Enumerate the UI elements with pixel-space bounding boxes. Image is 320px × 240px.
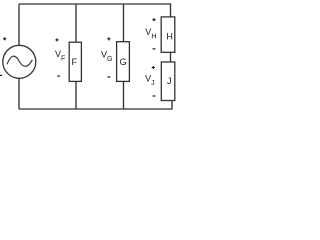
svg-text:G: G xyxy=(120,57,127,67)
svg-text:VH: VH xyxy=(145,27,156,40)
svg-text:VJ: VJ xyxy=(145,73,155,86)
svg-text:J: J xyxy=(167,76,172,86)
svg-text:F: F xyxy=(72,57,78,67)
svg-text:VG: VG xyxy=(101,50,112,63)
svg-text:VF: VF xyxy=(55,49,65,62)
svg-text:H: H xyxy=(166,31,173,41)
